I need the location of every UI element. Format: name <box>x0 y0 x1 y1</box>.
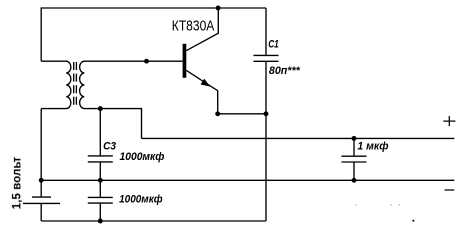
wire C1 column bottom <box>265 61 267 221</box>
svg-text:C1: C1 <box>268 39 279 51</box>
svg-text:80п***: 80п*** <box>269 65 300 77</box>
transformer T1 secondary winding <box>80 61 109 108</box>
junction node C1 bottom <box>264 111 269 116</box>
terminal plus symbol <box>443 116 455 126</box>
capacitor C4 bottom lead <box>353 162 355 180</box>
junction node C2 bottom <box>98 219 103 224</box>
capacitor C2 bottom lead <box>99 203 101 221</box>
stray period dot <box>413 220 415 222</box>
wire emitter to C1 bottom node <box>218 113 266 115</box>
transistor Q1 emitter arrow <box>201 79 211 87</box>
junction node collector-top <box>216 6 221 11</box>
transistor Q1 collector lead <box>186 8 218 51</box>
capacitor C2 top lead <box>99 180 101 197</box>
svg-text:1000мкф: 1000мкф <box>120 151 165 163</box>
junction node secondary-C3 <box>98 106 103 111</box>
wire secondary bottom to output step <box>100 109 141 139</box>
transformer T1 primary winding <box>41 61 71 108</box>
svg-text:1,5 вольт: 1,5 вольт <box>11 156 23 209</box>
svg-text:КТ830А: КТ830А <box>172 19 215 35</box>
svg-text:1000мкф: 1000мкф <box>119 194 163 206</box>
capacitor C4 top lead <box>353 138 355 156</box>
transistor Q1 emitter lead <box>186 70 218 114</box>
capacitor C2 plates <box>88 197 113 203</box>
junction node base <box>144 59 149 64</box>
capacitor C3 top lead <box>99 109 101 156</box>
junction node emitter <box>215 111 220 116</box>
junction node battery-minus-line <box>39 178 44 183</box>
junction node C4 top <box>352 136 357 141</box>
capacitor C3 bottom lead <box>99 162 101 180</box>
junction node C4 bottom <box>352 178 357 183</box>
svg-text:1 мкф: 1 мкф <box>357 140 388 152</box>
battery GB1 long plate <box>23 202 60 204</box>
transistor Q1 base bar <box>183 44 187 78</box>
watermark remnant pink dots <box>356 204 401 206</box>
wire C1 column top <box>265 8 267 55</box>
capacitor C1 plates <box>254 55 279 61</box>
wire left vertical bottom (primary to battery node) <box>40 109 42 181</box>
wire minus output line <box>41 179 454 181</box>
wire base from secondary to transistor <box>109 60 183 62</box>
terminal minus symbol <box>445 189 455 191</box>
wire bottom return <box>41 220 266 222</box>
battery GB1 short plate <box>32 196 51 198</box>
junction node C3-C2 <box>98 178 103 183</box>
wire top feedback <box>41 7 266 9</box>
capacitor C3 plates <box>88 156 113 162</box>
battery GB1 bottom lead <box>40 203 42 221</box>
svg-text:С3: С3 <box>103 140 117 152</box>
capacitor C4 plates <box>342 156 367 162</box>
battery GB1 top lead <box>40 180 42 196</box>
wire plus output line <box>142 137 455 139</box>
wire left vertical top <box>40 7 42 61</box>
transformer T1 core <box>74 62 77 106</box>
